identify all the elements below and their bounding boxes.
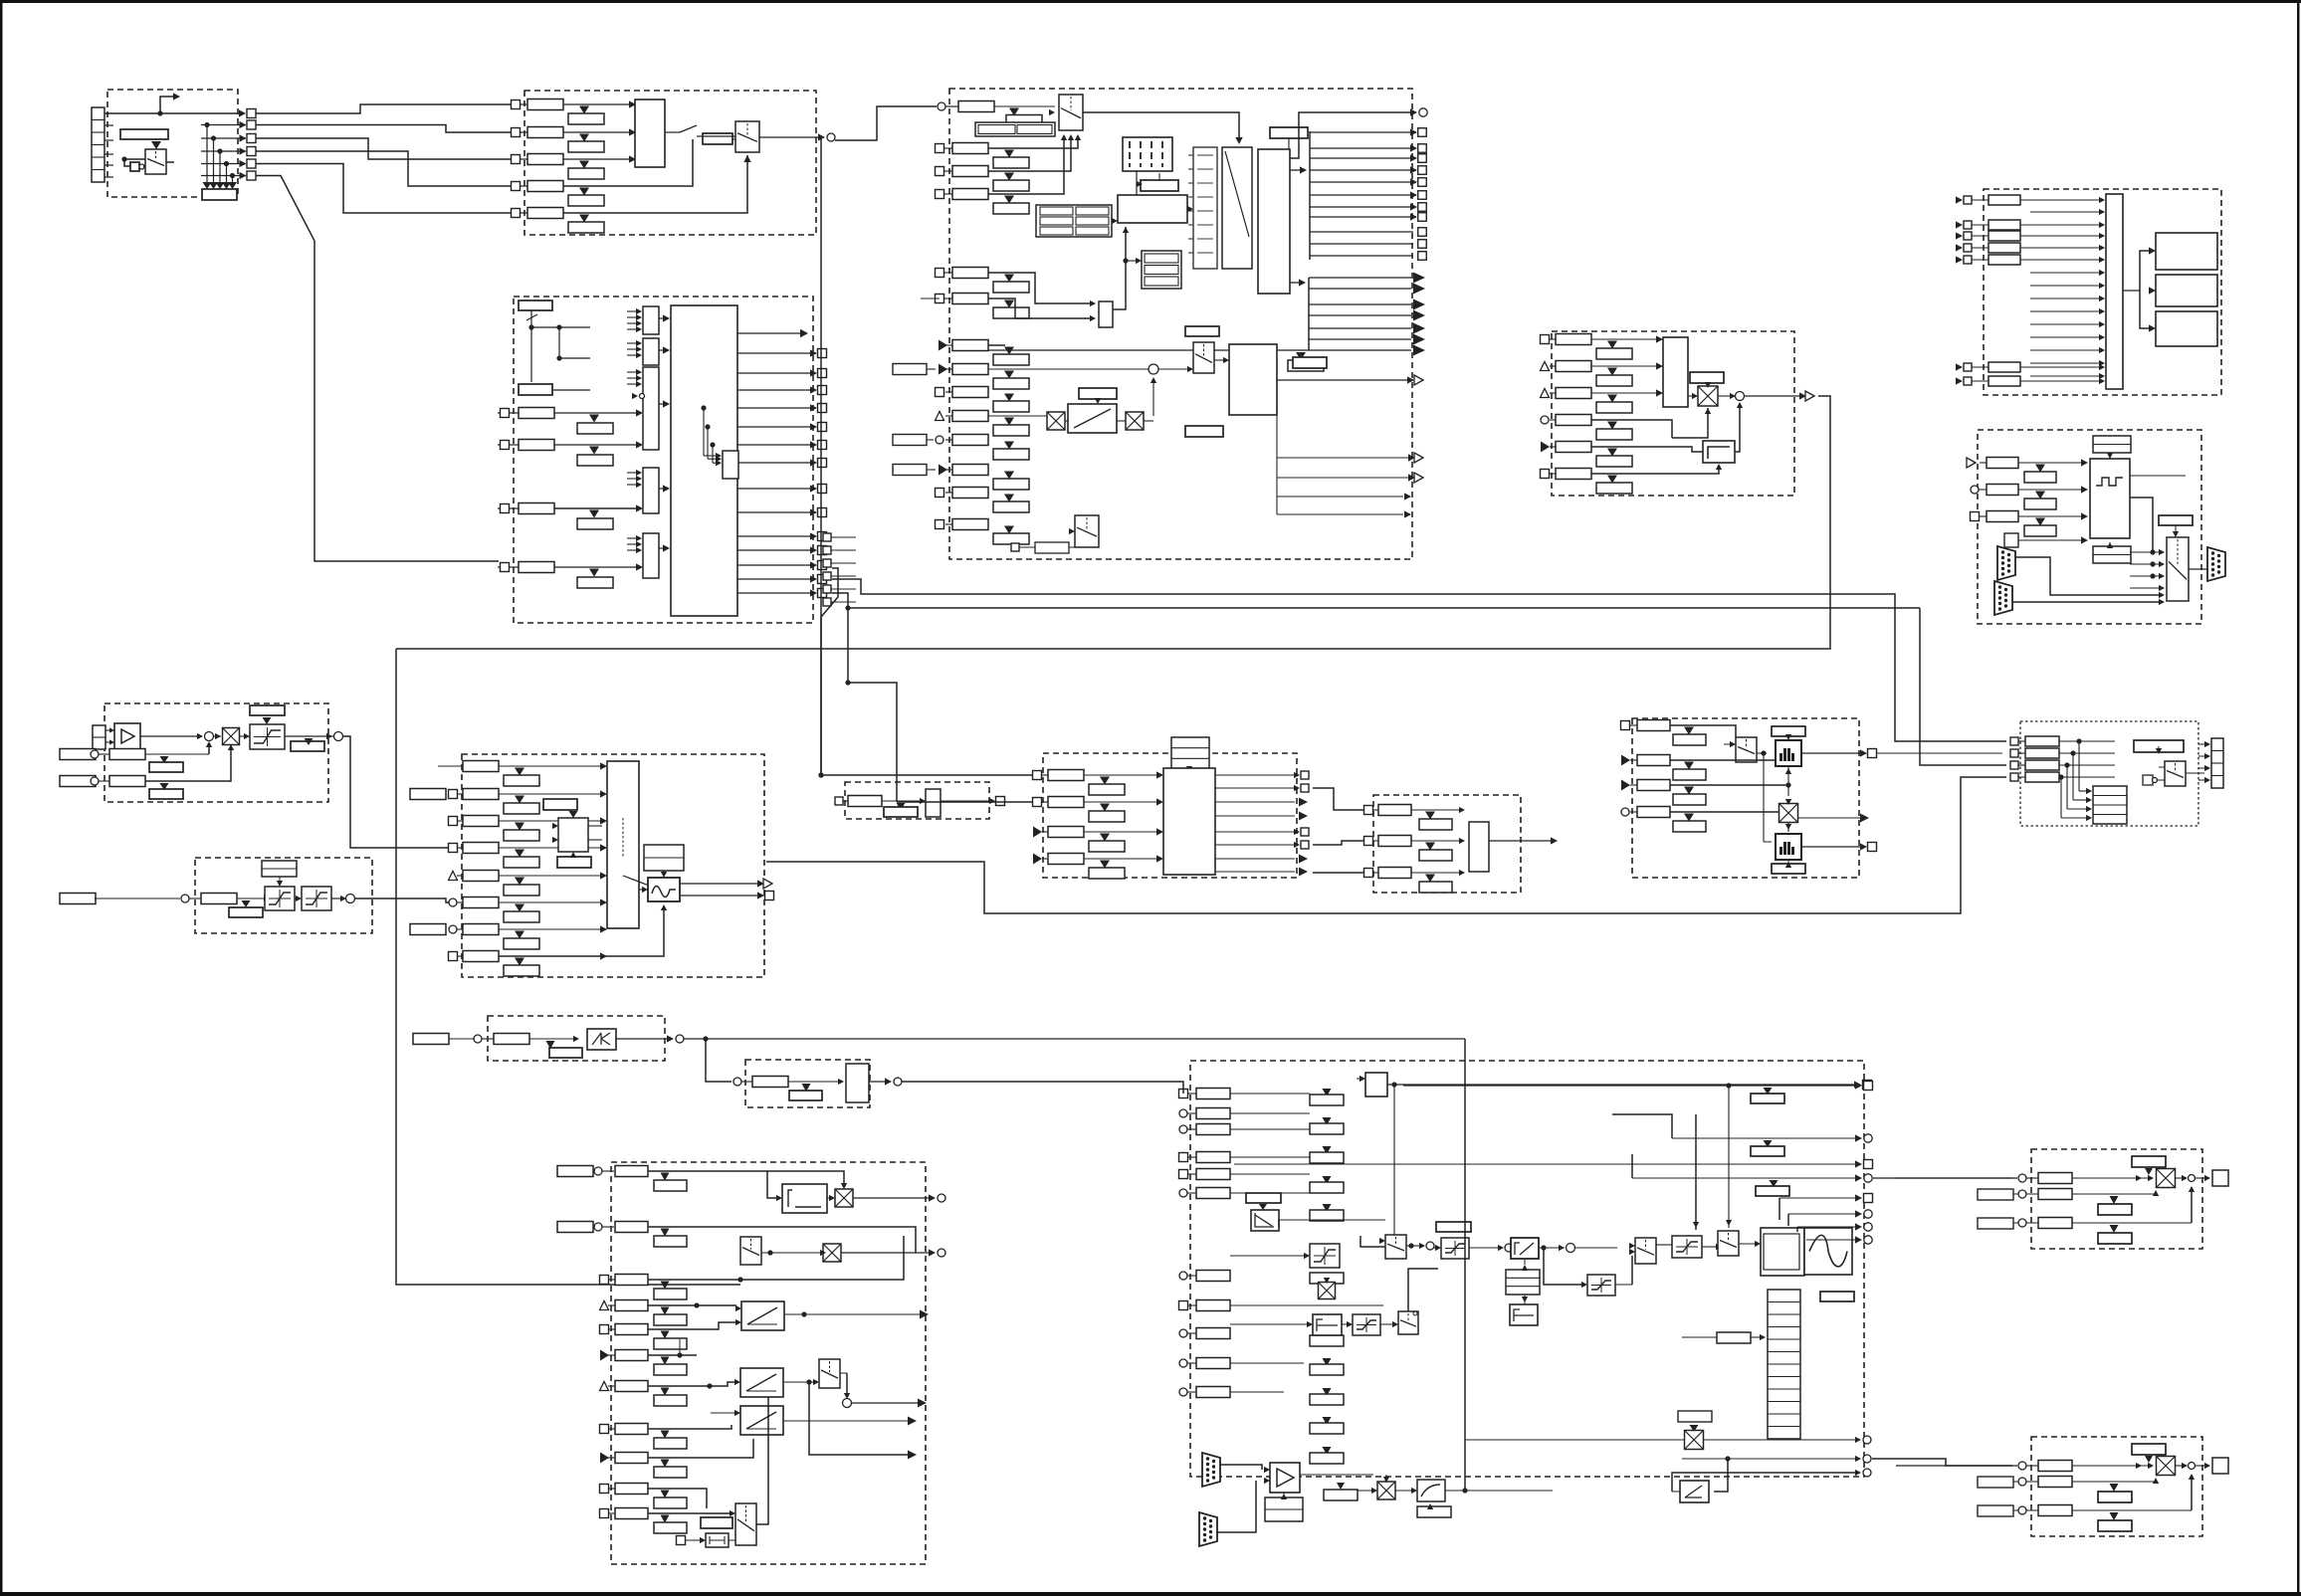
input row E1: [1541, 335, 1550, 344]
wire S up: [1408, 1269, 1438, 1311]
param row C1: [958, 101, 994, 112]
input row K1: [1033, 771, 1042, 780]
input row J3: [449, 817, 458, 826]
output square U: [2212, 1458, 2228, 1474]
wire net a2: [256, 125, 511, 133]
wire C6 long: [921, 298, 940, 299]
ramp box R2: [740, 1368, 783, 1397]
selector S1 mid: [1385, 1235, 1406, 1259]
top label box: [1270, 127, 1308, 138]
tick column box dashed: [1193, 147, 1217, 269]
selector S2: [1635, 1238, 1656, 1264]
input row R1: [615, 1166, 648, 1177]
multiplier U: [2157, 1457, 2176, 1476]
control word assembler big box: [671, 305, 737, 616]
limiter box P: [587, 1029, 616, 1050]
two-line param I: [262, 861, 297, 877]
external box U3: [1978, 1505, 2013, 1516]
output triangle G: [2130, 475, 2186, 477]
block L dashed frame: [845, 782, 989, 819]
block G dashed frame - pulse encoder emulation: [1978, 430, 2201, 624]
out right 1: [1704, 1439, 1857, 1441]
block T dashed frame: [2031, 1149, 2202, 1249]
DB9 connector G left top: [1997, 546, 2015, 580]
feedback J: [499, 906, 664, 956]
limit box S mid: [1441, 1238, 1469, 1259]
long wires from N/O to S inputs: [1960, 776, 1962, 778]
input row N1: [1621, 721, 1630, 730]
input row R2: [615, 1222, 648, 1233]
param row U1: [2038, 1461, 2072, 1472]
wire R7: [648, 1382, 735, 1386]
wire net a3: [256, 138, 511, 159]
selector R2: [819, 1359, 840, 1388]
parameter box at selector: [703, 133, 732, 144]
external param J7: [410, 924, 446, 935]
wire from B out to C1 input: [835, 106, 937, 140]
out ramp1: [784, 1313, 921, 1315]
wire B5 to selector: [563, 155, 747, 213]
input row E5: [1541, 442, 1550, 453]
fan-out verticals with parameter ground arrows: [201, 124, 246, 126]
branch down P: [706, 1039, 732, 1082]
input row F5: [1956, 256, 1963, 263]
wire N4: [1670, 811, 1779, 813]
sum circle E: [1736, 392, 1745, 401]
parameter row B3: [527, 154, 563, 165]
input square B1: [512, 100, 521, 109]
block U dashed frame: [2031, 1437, 2202, 1536]
input row E4: [1541, 416, 1549, 424]
trunk horizontal y611: [845, 605, 850, 610]
limiter S2: [1353, 1314, 1380, 1335]
stack box O: [2093, 786, 2127, 824]
output S row3 long: [1234, 1163, 1857, 1165]
input rows C7-C14 lower-left: [939, 340, 947, 351]
external param J2: [410, 789, 446, 800]
multiplier N: [1779, 804, 1798, 823]
output bundle 2 bus: [1308, 278, 1310, 350]
status word outputs: [737, 352, 812, 354]
ramp box R1: [741, 1301, 784, 1330]
block N dashed frame: [1632, 718, 1859, 878]
param row T1: [2038, 1173, 2072, 1184]
input row S1: [1179, 1090, 1188, 1098]
multiplier S1: [1319, 1283, 1336, 1299]
double register box: [975, 122, 1055, 136]
limiter S1: [1310, 1244, 1340, 1268]
wire: [1575, 1247, 1617, 1249]
wire chain S: [1360, 1236, 1385, 1247]
ramp S: [1511, 1238, 1539, 1259]
limiter I1: [265, 887, 295, 910]
small box under grid: [1141, 180, 1178, 191]
input row S8: [1179, 1301, 1188, 1310]
parameter row B4: [527, 181, 563, 192]
out arrow low: [809, 1382, 909, 1455]
block M dashed frame: [1373, 795, 1521, 893]
wire R1: [648, 1171, 844, 1187]
label box above mux: [1185, 326, 1219, 336]
distributor box K: [1163, 768, 1215, 875]
wire R4: [648, 1304, 736, 1306]
DB9 connector G right: [2207, 547, 2225, 581]
small mux C5: [1099, 301, 1113, 327]
input row S6: [1179, 1189, 1187, 1197]
stack under amp: [1265, 1497, 1303, 1521]
input row E2: [1541, 362, 1550, 371]
parameter box: [120, 129, 168, 139]
wire M in 1: [1313, 788, 1363, 810]
parameter row B1: [527, 100, 563, 110]
input row S5: [1179, 1170, 1188, 1179]
input row O4: [2010, 773, 2018, 781]
input row M1: [1364, 806, 1373, 815]
wire motor to right: [1277, 379, 1409, 381]
wire S top out: [1391, 1082, 1396, 1087]
param L: [848, 796, 882, 807]
multiplier T: [2157, 1169, 2176, 1188]
output E: [1745, 395, 1801, 397]
trunk wire from D area down-left: [396, 649, 740, 1285]
param row H1: [109, 749, 145, 760]
input rows D: [501, 409, 510, 418]
wire N2: [1670, 759, 1778, 761]
label box G right: [2159, 515, 2193, 525]
label box D1: [519, 384, 552, 395]
wire down from mux: [840, 1372, 847, 1374]
wire I out to J row6: [355, 898, 449, 902]
wire M in 2: [1313, 841, 1363, 845]
input row R4: [600, 1301, 609, 1310]
two-line box J: [644, 845, 684, 871]
wire E6: [1591, 466, 1719, 474]
sine box S: [1804, 1228, 1852, 1275]
selector output wire: [759, 136, 820, 138]
wire N3: [1670, 784, 1788, 786]
input row G2 circle: [1971, 486, 1979, 494]
output square T: [2212, 1170, 2228, 1186]
label below quant2: [1772, 864, 1805, 874]
external box T2: [1978, 1189, 2013, 1200]
long row C7: [988, 349, 1411, 351]
input row S2: [1179, 1109, 1187, 1117]
DB9 connector G left bottom: [1994, 581, 2012, 615]
input row S11: [1179, 1388, 1187, 1396]
sine shaper J: [648, 878, 680, 901]
amp S: [1270, 1463, 1300, 1493]
input row G1 triangle: [1967, 458, 1976, 468]
input row S10: [1179, 1359, 1187, 1367]
bottom left DB9 S2: [1199, 1512, 1217, 1546]
long input wire U: [1896, 1465, 2017, 1467]
label box T top: [2132, 1156, 2166, 1167]
label boxes bottom S: [1324, 1490, 1358, 1500]
block C dashed frame - sequence control: [949, 89, 1412, 559]
input row J1: [438, 765, 463, 767]
input row N4: [1621, 808, 1629, 816]
input row J7: [449, 925, 457, 933]
sub box with taps: [723, 451, 738, 479]
param row Q: [752, 1077, 788, 1088]
external box T3: [1978, 1218, 2013, 1229]
min max box J: [558, 818, 588, 852]
curve box S bottom: [1417, 1480, 1445, 1501]
limiter S3: [1587, 1275, 1615, 1296]
block H dashed frame: [105, 703, 328, 802]
wire N out1: [1801, 752, 1863, 754]
two-line box G bottom: [2093, 546, 2131, 563]
input row F3: [1956, 232, 1963, 239]
vertical x1704 down: [1695, 1114, 1697, 1230]
label box O right: [2134, 740, 2184, 752]
label right H: [291, 741, 324, 751]
ramp limit box: [1068, 404, 1117, 433]
label above quant: [1772, 726, 1805, 736]
terminal connector X1: [92, 107, 105, 182]
out R1: [853, 1197, 931, 1199]
branch arrow symbol: [160, 97, 175, 113]
input row S4: [1179, 1153, 1188, 1162]
wire R9: [648, 1439, 753, 1458]
external input H1: [60, 749, 96, 760]
selector switch S1: [151, 141, 161, 149]
input row J6: [449, 898, 457, 906]
trunk horizontal y686 to K row2: [845, 680, 850, 685]
wire into integ: [767, 1171, 777, 1198]
two bottom rows F: [1956, 363, 1963, 370]
wires into selector G: [2150, 549, 2155, 554]
param row I: [201, 894, 237, 904]
three-line box K top: [1171, 737, 1209, 769]
wire R3 bus: [648, 1236, 904, 1280]
label right of ladder: [1820, 1292, 1854, 1301]
wire rows S to chain: [1230, 1093, 1310, 1095]
input row S3: [1179, 1125, 1187, 1133]
input row R7: [600, 1382, 609, 1391]
wire to sum: [1539, 1247, 1565, 1249]
external box U2: [1978, 1477, 2013, 1488]
output M: [1489, 840, 1553, 842]
input row G3 square: [1971, 512, 1980, 521]
block O dotted frame: [2020, 721, 2198, 826]
label box right: [1293, 357, 1327, 368]
output S row2: [1672, 1137, 1857, 1139]
long input wire T: [1896, 1177, 2017, 1179]
input row E3: [1541, 389, 1550, 398]
output column O: [2211, 738, 2223, 788]
wire net a4: [256, 151, 511, 186]
top box S: [1365, 1073, 1387, 1097]
wire mode to tick col: [1187, 208, 1188, 210]
output J triangle: [680, 883, 759, 885]
multiplier R1: [835, 1189, 853, 1207]
quantizer N1: [1776, 740, 1801, 766]
output collector bar F: [2106, 194, 2123, 389]
wire N out2: [1801, 846, 1863, 848]
block A dashed frame - control logic: [107, 90, 238, 197]
block P dashed frame: [488, 1016, 665, 1061]
param row P: [494, 1034, 529, 1045]
mode logic box: [1118, 195, 1187, 223]
inverter O: [2143, 775, 2153, 785]
min-max block E: [1663, 337, 1688, 407]
block Q box: [846, 1064, 869, 1102]
block Q dashed frame: [745, 1060, 870, 1107]
external param P: [413, 1034, 449, 1045]
junction dots O: [2059, 740, 2115, 742]
external input H2: [60, 776, 96, 787]
input row M3: [1364, 869, 1373, 878]
integrator S: [1313, 1314, 1342, 1335]
input square B3: [512, 155, 521, 164]
input row N2: [1621, 755, 1630, 766]
multiplier C: [1047, 412, 1065, 430]
multiplier R2: [823, 1244, 841, 1262]
trunk vertical into O row3: [1920, 608, 2006, 765]
limiter I2: [302, 887, 331, 910]
trunk vertical x825 to K: [818, 772, 823, 777]
decay box S: [1251, 1210, 1279, 1231]
parameter row B5: [527, 208, 563, 219]
parameter row B2: [527, 127, 563, 138]
input square B4: [512, 182, 521, 191]
label below curve: [1417, 1506, 1451, 1517]
output bundle 1 bus: [1309, 131, 1311, 260]
C5 mux output up: [1113, 227, 1126, 309]
input row R5: [600, 1325, 609, 1334]
trunk wire to O row4: [766, 777, 2006, 913]
filter box L: [926, 789, 941, 817]
bottom selector R3: [735, 1503, 756, 1545]
wire mux up: [756, 1439, 768, 1524]
param row T3: [2038, 1218, 2072, 1229]
ramp box R3: [740, 1406, 783, 1435]
label R bottom: [701, 1517, 732, 1528]
input row K2: [1033, 798, 1042, 807]
out R main: [852, 1402, 919, 1404]
limiter S4: [1672, 1236, 1702, 1258]
selector mux B: [635, 100, 665, 167]
two-line box G top: [2093, 436, 2131, 453]
label below S1: [1310, 1273, 1344, 1284]
integrator box R: [782, 1184, 827, 1213]
output J square: [680, 895, 759, 897]
selector G: [2167, 537, 2189, 601]
output S row4: [1632, 1177, 1857, 1179]
multiplier H: [223, 728, 240, 745]
label below minmax: [557, 857, 591, 868]
wire S out to block U: [1872, 1459, 2012, 1466]
param row U2: [2038, 1477, 2072, 1488]
label above ramp: [1079, 388, 1117, 399]
param box E right: [1690, 372, 1724, 383]
wire P to S rows: [1916, 1038, 1918, 1040]
wire bottom out: [1672, 1491, 1680, 1493]
input row R3: [600, 1276, 609, 1285]
input row K4: [1033, 854, 1042, 865]
wire net a5: [256, 164, 511, 214]
input row O3: [2010, 761, 2018, 769]
wire top mux to slant column: [1083, 112, 1239, 140]
inverter gate: [130, 162, 139, 171]
vertical from motor box: [1276, 403, 1278, 514]
wire K2: [897, 801, 1032, 803]
wire N1: [1670, 725, 1736, 737]
slant mux C lower: [1193, 342, 1214, 373]
wire ladder in: [1717, 1332, 1751, 1343]
pulse grid box: [1123, 137, 1172, 171]
input circle row C1: [938, 102, 945, 110]
input row M2: [1364, 837, 1373, 846]
wire: [1702, 1246, 1718, 1248]
vertical x1737 down: [1728, 1086, 1730, 1228]
output circle I: [346, 895, 355, 903]
output S row6: [1787, 1214, 1789, 1226]
input row R6: [600, 1350, 609, 1361]
wire N out to O row2: [1877, 752, 2002, 754]
relay boxes F: [2156, 233, 2217, 270]
motor model box: [1229, 344, 1277, 415]
combiner M: [1469, 822, 1489, 872]
output S row1: [1726, 1083, 1731, 1088]
wire R8: [648, 1425, 732, 1429]
block S dashed frame - current control & gating: [1190, 1061, 1864, 1477]
input row O1: [2010, 737, 2018, 745]
amplifier H: [114, 723, 140, 749]
wire into ramp3: [734, 1410, 740, 1416]
wire: [1656, 1244, 1672, 1246]
selector N: [1736, 737, 1757, 762]
wire Q to S: [902, 1082, 1183, 1094]
wire E5: [1591, 447, 1703, 452]
lower input rows C5-C6: [936, 269, 944, 278]
ladder stack S: [1768, 1290, 1800, 1439]
hash mark wire: [530, 310, 532, 382]
output S row7: [1796, 1227, 1798, 1232]
block I dashed frame: [195, 858, 372, 933]
input rows C2-C4: [936, 144, 944, 153]
block F dashed frame - output terminal mapping: [1984, 189, 2221, 395]
small square G4: [2004, 533, 2018, 547]
OR gate column 1: [643, 306, 659, 334]
selector B2: [735, 121, 759, 152]
sum circle C: [1149, 364, 1158, 374]
3 stack boxes right: [1142, 251, 1181, 289]
output circle H: [334, 732, 343, 741]
multiplier C2: [1126, 412, 1144, 430]
param row U3: [2038, 1505, 2072, 1516]
ramp小 S: [1680, 1481, 1709, 1502]
out R2: [841, 1252, 931, 1254]
bottom left DB9 S: [1202, 1453, 1220, 1487]
wire to ramp: [1469, 1247, 1503, 1249]
input row R11: [600, 1509, 609, 1518]
selector C top: [1059, 95, 1083, 130]
input row F4: [1956, 244, 1963, 251]
selector S3: [1718, 1231, 1739, 1256]
input row N3: [1621, 780, 1630, 791]
external boxes left of C rows: [893, 364, 927, 375]
extra S row wires: [1230, 1304, 1383, 1306]
PWM box: [1761, 1228, 1804, 1276]
selector tall J: [607, 761, 639, 928]
junction S: [1408, 1243, 1413, 1248]
input row J2: [449, 790, 458, 799]
external rows R: [557, 1166, 593, 1177]
vertical chain of label boxes S: [1323, 1089, 1332, 1097]
label above: [1436, 1222, 1471, 1232]
